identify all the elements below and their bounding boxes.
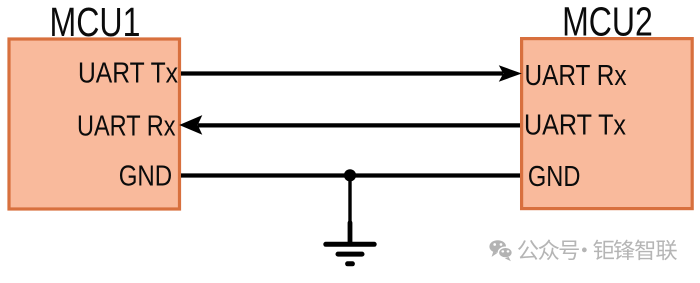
svg-text:UART Tx: UART Tx	[524, 108, 626, 140]
MCU2 box U2	[522, 39, 693, 209]
svg-text:UART Rx: UART Rx	[525, 59, 627, 91]
ground symbol bar 3	[348, 261, 353, 266]
arrowhead into MCU1 UART Rx	[179, 115, 202, 135]
svg-text:MCU1: MCU1	[50, 0, 141, 45]
ground symbol bar 2	[338, 252, 362, 257]
watermark wechat logo	[489, 240, 512, 261]
watermark text 公众号·钜锋智联	[518, 239, 677, 260]
junction node on GND wire	[344, 169, 356, 181]
svg-text:GND: GND	[119, 159, 173, 191]
ground symbol stub	[348, 223, 353, 242]
wire Tx2 to Rx1	[198, 123, 520, 127]
MCU1 box U1	[9, 39, 180, 209]
svg-text:UART Tx: UART Tx	[78, 57, 178, 89]
svg-text:UART Rx: UART Rx	[77, 110, 176, 142]
wire GND1 to GND2	[181, 173, 520, 177]
svg-text:MCU2: MCU2	[562, 0, 653, 45]
svg-text:GND: GND	[528, 160, 581, 192]
arrowhead into MCU2 UART Rx	[499, 65, 522, 81]
ground symbol bar 1	[326, 242, 374, 247]
wire Tx1 to Rx2	[181, 71, 503, 75]
wire junction down to ground	[348, 176, 351, 225]
